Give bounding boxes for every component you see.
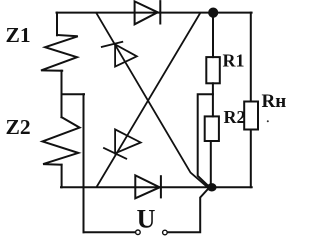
- wire branch from R1/R2 node down to bottom dot: [198, 94, 213, 186]
- resistor R1 body: [206, 57, 220, 83]
- wire R2 bottom to bottom dot: [210, 141, 212, 187]
- wire R1 bottom to R2 top: [212, 83, 214, 116]
- svg-text:R1: R1: [223, 51, 245, 71]
- wire bottom horizontal bus: [61, 186, 252, 188]
- diode VD2 (bottom) triangle: [135, 175, 159, 198]
- diode VD4 cathode bar: [104, 148, 126, 159]
- wire branch from Z1/Z2 node to the right: [62, 93, 85, 95]
- wire right rail (Rn branch, lower part): [250, 130, 252, 188]
- wire right rail (Rn branch, upper part): [250, 13, 252, 102]
- wire left top vertical: [56, 13, 58, 36]
- terminal right (source U): [163, 230, 168, 235]
- terminal left (source U): [136, 230, 141, 235]
- wire Z2 bottom vertical: [61, 165, 63, 188]
- diode VD1 (top) triangle: [135, 1, 158, 24]
- impedance Z2 zigzag: [43, 117, 80, 165]
- svg-text:U: U: [137, 205, 156, 234]
- wire to left source terminal: [84, 231, 136, 233]
- diode VD3 on diagonal A: triangle: [115, 44, 137, 66]
- diode VD1 cathode bar: [159, 1, 161, 23]
- node bottom-right junction dot: [207, 183, 217, 191]
- resistor Rn body: [244, 102, 258, 130]
- diode VD4 on diagonal B: triangle: [115, 129, 141, 153]
- svg-text:R2: R2: [224, 107, 246, 127]
- node top-right junction dot: [208, 8, 218, 18]
- diode VD3 cathode bar: [102, 42, 123, 47]
- svg-text:Z2: Z2: [6, 115, 31, 139]
- svg-text:Rн: Rн: [262, 91, 287, 112]
- diagonal wire B (top-right to bottom-left): [97, 13, 200, 187]
- wire top horizontal bus: [57, 12, 252, 14]
- resistor R2 body: [205, 116, 219, 141]
- wire from right terminal to corner: [168, 190, 208, 233]
- stray period mark: [267, 120, 269, 122]
- svg-text:Z1: Z1: [6, 23, 31, 47]
- impedance Z1 zigzag: [41, 35, 78, 71]
- diagonal wire A (top-left to bottom-right): [96, 13, 206, 186]
- wire long vertical down to left source terminal: [83, 94, 85, 232]
- wire left middle vertical: [61, 71, 63, 118]
- diode VD2 cathode bar: [160, 176, 162, 197]
- wire from top dot down to R1: [212, 13, 214, 58]
